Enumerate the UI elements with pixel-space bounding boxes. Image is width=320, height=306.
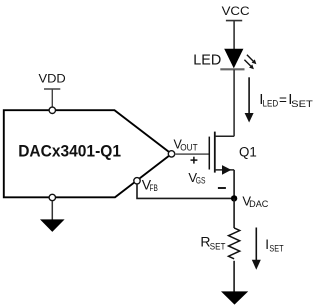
svg-text:=: = bbox=[279, 92, 287, 107]
node VFB label bbox=[142, 177, 158, 193]
current arrow ISET bbox=[252, 228, 261, 270]
label ILED = ISET bbox=[259, 91, 313, 110]
anode triangle bbox=[224, 49, 243, 69]
light emission arrow 2 bbox=[244, 60, 250, 66]
wire VOUT to gate bbox=[175, 153, 210, 155]
svg-text:SET: SET bbox=[210, 241, 226, 252]
VGS plus sign bbox=[191, 157, 198, 164]
DAC block U1 DACx3401-Q1 bbox=[4, 110, 172, 197]
label RSET bbox=[200, 234, 225, 253]
wire LED cathode to drain bbox=[233, 70, 235, 137]
VFB pin terminal bbox=[134, 178, 140, 184]
light emission arrow 1 bbox=[247, 55, 253, 61]
transistor Q1 (NMOS) bbox=[209, 132, 234, 175]
label ISET bbox=[265, 237, 283, 254]
source arrow bbox=[222, 165, 231, 175]
wire VDAC to RSET bbox=[233, 198, 235, 228]
VGS minus sign bbox=[218, 187, 226, 189]
VCC supply label bbox=[222, 4, 250, 20]
svg-text:SET: SET bbox=[269, 244, 283, 255]
label VDAC bbox=[242, 194, 268, 210]
resistor RSET bbox=[229, 228, 240, 259]
wire to ground bbox=[51, 201, 53, 220]
wire source to VDAC node bbox=[233, 170, 235, 199]
node VDAC junction dot bbox=[231, 195, 237, 201]
svg-text:SET: SET bbox=[291, 99, 313, 110]
LED D1 bbox=[220, 49, 256, 70]
svg-text:DAC: DAC bbox=[249, 199, 269, 209]
VDD supply label bbox=[39, 72, 66, 108]
VDD pin terminal bbox=[49, 107, 55, 113]
svg-text:GS: GS bbox=[196, 176, 206, 186]
svg-text:FB: FB bbox=[150, 183, 158, 193]
node VOUT label bbox=[174, 138, 199, 153]
wire VFB down and across to VDAC bbox=[137, 184, 234, 198]
label VGS bbox=[188, 170, 205, 185]
GND pin terminal on DAC bottom bbox=[49, 194, 55, 200]
current arrow ILED bbox=[245, 77, 254, 122]
channel bbox=[214, 132, 216, 173]
svg-text:VDD: VDD bbox=[39, 72, 66, 86]
svg-text:DACx3401-Q1: DACx3401-Q1 bbox=[18, 141, 121, 160]
wire RSET to ground bbox=[233, 261, 235, 292]
svg-text:OUT: OUT bbox=[180, 142, 198, 152]
gate plate bbox=[208, 137, 210, 170]
ground (DAC) bbox=[40, 219, 65, 232]
svg-text:LED: LED bbox=[193, 52, 221, 68]
svg-text:LED: LED bbox=[263, 98, 279, 109]
wire VCC to LED anode bbox=[233, 21, 235, 49]
source lead bbox=[215, 169, 234, 171]
svg-text:Q1: Q1 bbox=[239, 145, 257, 160]
ground (RSET) bbox=[221, 291, 248, 304]
drain lead bbox=[215, 135, 234, 137]
svg-text:VCC: VCC bbox=[222, 4, 250, 18]
VOUT pin terminal bbox=[168, 151, 174, 157]
cathode bar bbox=[220, 68, 244, 70]
